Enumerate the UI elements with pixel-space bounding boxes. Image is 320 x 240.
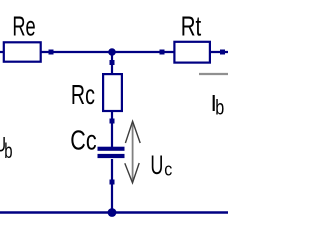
svg-text:Re: Re	[12, 10, 35, 41]
wire vertical from top junction to Rc	[111, 52, 113, 74]
svg-text:b: b	[4, 140, 12, 163]
voltage arrow Uc top head	[125, 121, 140, 143]
wire from Cc to bottom rail	[111, 159, 113, 213]
capacitor Cc top plate	[98, 147, 125, 151]
pin pad after Re	[49, 50, 54, 55]
resistor Rc	[103, 74, 122, 111]
resistor Re	[4, 42, 41, 61]
svg-text:Cc: Cc	[70, 124, 96, 155]
svg-text:Rc: Rc	[71, 79, 95, 110]
gray fraction bar over Ib	[199, 73, 228, 75]
pin pad above Rc	[110, 60, 115, 65]
svg-text:Rt: Rt	[181, 11, 202, 42]
voltage arrow Uc bottom head	[125, 163, 139, 183]
svg-text:c: c	[164, 160, 172, 180]
wire left stub into Re	[0, 51, 4, 53]
pin pad below Rc	[110, 119, 115, 124]
node junction dot bottom	[108, 208, 117, 217]
pin pad below Cc	[110, 180, 115, 185]
capacitor Cc bottom plate	[98, 154, 125, 158]
resistor Rt	[174, 42, 210, 63]
wire from Rt to right edge	[210, 51, 228, 53]
node junction dot top	[108, 48, 116, 56]
wire from Rc to capacitor Cc	[111, 112, 113, 148]
voltage arrow Uc shaft	[132, 122, 134, 182]
svg-text:b: b	[215, 96, 224, 119]
wire from Re to Rt (through top junction)	[41, 51, 175, 53]
pin pad after Rt	[220, 50, 225, 55]
pin pad before Rt	[160, 50, 165, 55]
svg-text:U: U	[150, 150, 163, 180]
bottom rail wire	[0, 211, 228, 214]
